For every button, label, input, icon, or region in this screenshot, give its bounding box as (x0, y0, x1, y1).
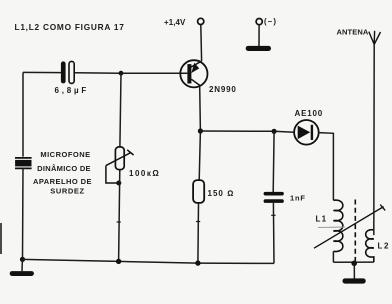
transistor 2N990 (180, 60, 207, 87)
node cap-diode junction dot (272, 129, 277, 134)
wire 1nF bottom (272, 203, 275, 264)
inductor L1 (333, 200, 342, 251)
faint wiper trace on L1 (318, 226, 345, 229)
wire (-) to bar (258, 25, 260, 47)
potentiometer 100k body (115, 147, 124, 170)
capacitor 6,8uF (61, 61, 74, 83)
wire resistor top (199, 131, 200, 180)
wire top-left horizontal to capacitor (23, 71, 62, 73)
node resistor bottom dot (195, 260, 200, 265)
node tank bottom dot (351, 261, 357, 267)
microphone caption (33, 150, 92, 195)
wire diode to tank top (319, 133, 334, 201)
wire L1 bottom (332, 251, 334, 262)
wire left rail upper (22, 72, 24, 156)
trimmer arrow through L1 (314, 205, 385, 249)
wire tank bottom (333, 261, 373, 263)
wire stub to left ground (21, 259, 23, 271)
wire resistor bottom (197, 203, 200, 263)
svg-text:100кΩ: 100кΩ (129, 169, 160, 178)
capacitor 1nF (264, 192, 284, 203)
wire transistor collector down (199, 87, 202, 131)
node base junction dot (119, 71, 124, 76)
wire 1nF top (272, 131, 275, 192)
wire left rail lower (22, 168, 25, 259)
left photo edge artifact (0, 223, 2, 254)
svg-text:AE100: AE100 (295, 109, 323, 118)
wire collector node to cap node (200, 130, 274, 132)
svg-text:1nF: 1nF (290, 194, 306, 203)
svg-text:DINÂMICO DE: DINÂMICO DE (37, 164, 91, 173)
svg-text:MICROFONE: MICROFONE (40, 150, 90, 159)
wire stub to right ground (353, 263, 355, 278)
tick on 1nF wire (271, 214, 275, 216)
diode AE100 (294, 120, 319, 145)
resistor 150 body (193, 180, 204, 203)
dashed core line (354, 200, 356, 262)
svg-text:6,8µF: 6,8µF (55, 86, 90, 95)
node wiper junction dot (116, 181, 121, 186)
svg-text:150 Ω: 150 Ω (208, 189, 235, 198)
antenna (369, 31, 381, 45)
wire potentiometer bottom (119, 170, 120, 262)
svg-text:L1,L2 COMO FIGURA 17: L1,L2 COMO FIGURA 17 (15, 22, 125, 32)
ground left (10, 271, 34, 276)
terminal +1,4V (198, 18, 204, 24)
svg-text:ANTENA: ANTENA (337, 28, 369, 37)
wire junction to transistor base (121, 72, 187, 74)
wire potentiometer top (120, 73, 121, 147)
tick on pot wire (117, 221, 121, 223)
svg-text:+1,4V: +1,4V (164, 18, 186, 27)
wire transistor top to +1,4V (200, 25, 203, 62)
microphone dynamic earphone (15, 158, 32, 169)
wire antenna lead (373, 44, 375, 235)
ground bar under (-) (246, 46, 271, 51)
inductor L2 (366, 230, 374, 262)
node pot bottom dot (116, 259, 121, 264)
svg-text:L2: L2 (378, 242, 391, 251)
ground right (343, 278, 366, 283)
node collector junction dot (198, 128, 203, 133)
wire bottom rail (23, 259, 275, 263)
potentiometer wiper arrow (106, 150, 134, 183)
terminal (-) (256, 19, 262, 25)
svg-text:SURDEZ: SURDEZ (50, 186, 84, 195)
svg-text:(–): (–) (264, 17, 277, 26)
svg-text:L1: L1 (316, 215, 328, 224)
wire node to diode (274, 130, 294, 133)
svg-text:2N990: 2N990 (209, 85, 237, 94)
wire capacitor to base junction (75, 72, 122, 74)
svg-text:APARELHO DE: APARELHO DE (33, 177, 92, 186)
tick on resistor wire (196, 221, 200, 223)
node left bottom junction dot (20, 257, 25, 262)
